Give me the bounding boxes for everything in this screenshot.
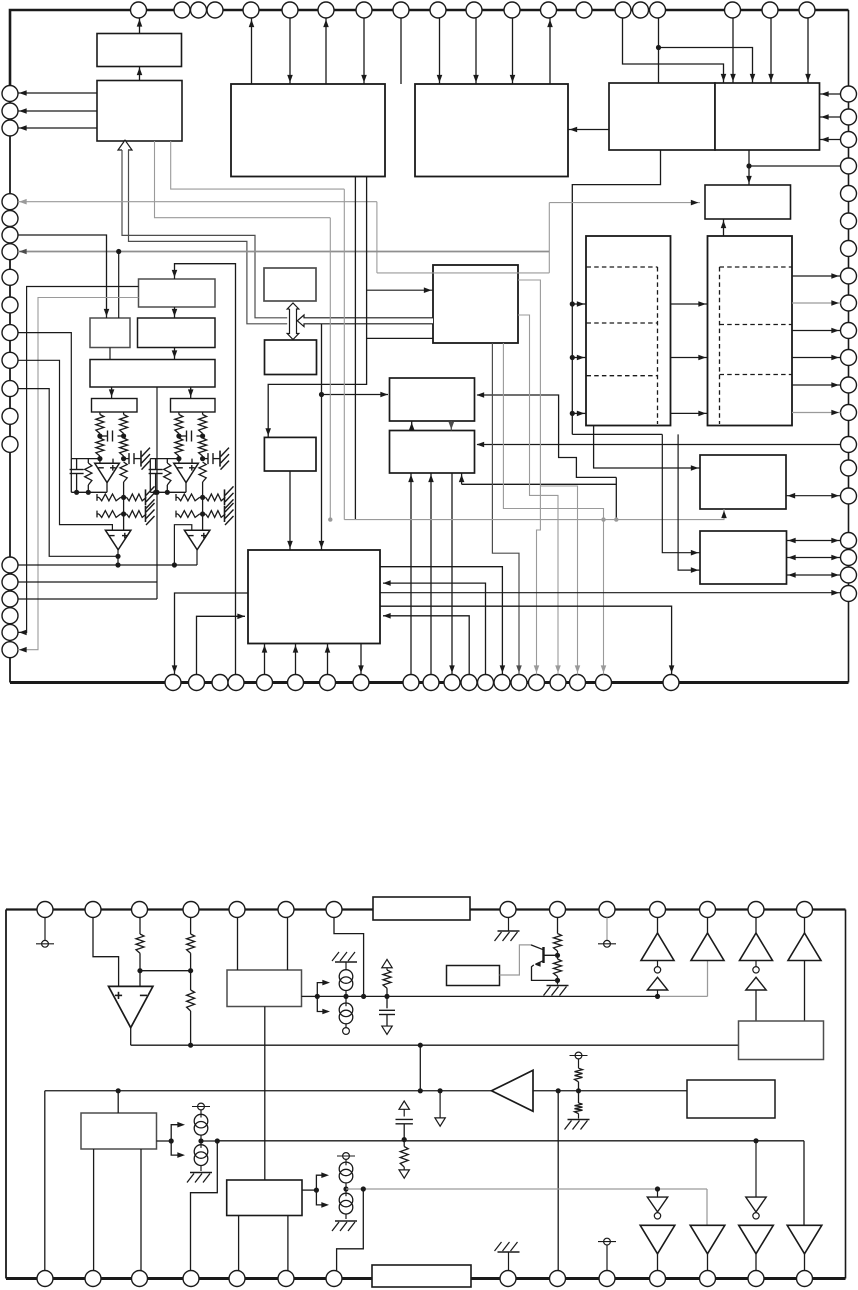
capacitor vca feedback Cf bbox=[155, 459, 157, 470]
terminal pin10 top bbox=[606, 918, 608, 941]
buffer B1 bbox=[640, 1225, 675, 1254]
staircase rail to bottom pin4 bbox=[191, 1141, 218, 1271]
wire U2 out to left pin 3 bbox=[18, 127, 97, 129]
wire comparator minus bbox=[139, 971, 141, 987]
block U10 interface lower bbox=[265, 340, 317, 375]
wire U17 to U18 row3 bbox=[671, 412, 708, 414]
wire U10b to U23 top bbox=[289, 471, 291, 550]
pin left 7 bbox=[2, 244, 18, 260]
wire U20 to right pin 19 bidir bbox=[787, 574, 841, 576]
wire x616 vertical bbox=[615, 477, 617, 519]
wire pin left 16 opamp out rail bbox=[18, 564, 197, 566]
pin IC2 bottom 10 bbox=[599, 1271, 615, 1287]
pin top 8 bbox=[356, 2, 372, 18]
wire U8 port1 to bottom pin 15 bbox=[492, 343, 519, 675]
wire vca left loop bbox=[149, 459, 151, 493]
pin IC2 top 5 bbox=[229, 902, 245, 918]
block U11 processor row1 bbox=[139, 279, 216, 307]
wire U5 bottom to column x572 bbox=[572, 150, 660, 434]
buffer A2 bbox=[707, 918, 709, 934]
long wire to right pin 20 bbox=[380, 592, 841, 594]
wire bottom pin 2 into U23 bbox=[197, 616, 246, 674]
wire top pin 12 to U4 bbox=[512, 18, 514, 84]
wire pin left 18 bbox=[18, 598, 157, 600]
wire V bottom to X top bbox=[264, 1007, 266, 1181]
pin right 10 bbox=[841, 323, 857, 339]
IC2 package outline bbox=[5, 910, 7, 1279]
wire X fork to current sources bbox=[302, 1189, 316, 1191]
resistor column x578 lower bbox=[578, 1091, 580, 1103]
ground above bottom pin8 bbox=[508, 1252, 510, 1271]
block U15 DAC L bbox=[92, 399, 138, 413]
pin right 7 bbox=[841, 241, 857, 257]
wire bus down to U12 top bbox=[118, 252, 120, 319]
resistor column x578 upper bbox=[578, 1059, 580, 1068]
pin IC2 top 3 bbox=[132, 902, 148, 918]
wire rail link vertical bbox=[419, 1045, 421, 1091]
gray bus vertical x377 bbox=[376, 202, 378, 273]
wire U20 to right pin 17 bidir bbox=[787, 540, 841, 542]
wire node A to opamp minus bbox=[178, 459, 180, 464]
capacitor vca C1 bbox=[179, 435, 187, 437]
wire W top to rail bbox=[117, 1091, 119, 1113]
wire opampL2 output bbox=[117, 549, 119, 565]
pin left 4 bbox=[2, 194, 18, 210]
wire branch to U21 input bbox=[322, 394, 389, 396]
wire U2 to U1 bbox=[139, 67, 141, 81]
pin IC2 top 13 bbox=[748, 902, 764, 918]
wire pin6 to V bbox=[287, 918, 289, 971]
pin right 18 bbox=[841, 550, 857, 566]
junction bus dot bbox=[116, 249, 121, 254]
wire pin left 12 to opampL output node bbox=[18, 389, 118, 557]
wire U18 top to U7 bottom bbox=[723, 219, 725, 236]
buffer A1 bbox=[657, 918, 659, 934]
resistor vca R3 bbox=[199, 462, 206, 482]
pin right 19 bbox=[841, 567, 857, 583]
wire U18 out to right pin 13 bbox=[792, 412, 841, 414]
pin top 4 bbox=[207, 2, 223, 18]
rail y1090 right bbox=[533, 1090, 687, 1092]
gray bus y520 into U19 bottom bbox=[344, 509, 724, 520]
capacitor to ground node B bbox=[203, 458, 208, 460]
wire top pin 17 to U5 and branch bbox=[658, 18, 660, 83]
pin right 15 bbox=[841, 460, 857, 476]
wire U8 port2 to bottom pin 19 via y508 bbox=[503, 343, 603, 675]
pin IC2 bottom 6 bbox=[278, 1271, 294, 1287]
wire bottom pin 12 into U23 bbox=[383, 616, 469, 675]
buffer A3 bbox=[755, 918, 757, 934]
wire U8 right port2 to bottom pin 17 bbox=[518, 315, 558, 675]
pin right 5 bbox=[841, 186, 857, 202]
wire bottom pin 5 into U23 bbox=[264, 644, 266, 675]
op-amp vca A2 bbox=[184, 530, 210, 550]
block U12 small left bbox=[90, 318, 130, 348]
wire opamp output to rail bbox=[185, 483, 187, 493]
wire U17 to U18 row2 bbox=[671, 357, 708, 359]
wire pin5 to V bbox=[237, 918, 239, 971]
wire right staircase into U21 bbox=[477, 395, 616, 477]
pin right 12 bbox=[841, 377, 857, 393]
pin right 13 bbox=[841, 405, 857, 421]
pin IC2 bottom 13 bbox=[748, 1271, 764, 1287]
wire vca leg L upper bbox=[178, 412, 180, 415]
pin IC2 top 7 bbox=[326, 902, 342, 918]
pin left 8 bbox=[2, 269, 18, 285]
resistor row1 left bbox=[175, 494, 177, 501]
wire X to bottom pin5 bbox=[238, 1216, 240, 1271]
ground transistor bbox=[557, 980, 559, 984]
block U16 DAC R bbox=[171, 399, 216, 413]
pin IC2 bottom 4 bbox=[183, 1271, 199, 1287]
wire U22 to bottom pin 11 bbox=[451, 473, 453, 675]
pin right 14 bbox=[841, 437, 857, 453]
gray bus vertical x549 bbox=[548, 203, 550, 273]
pin bottom 4 bbox=[228, 675, 244, 691]
pin IC2 top 4 bbox=[183, 902, 199, 918]
current source W upper bbox=[194, 1114, 208, 1128]
resistor vca R1L bbox=[175, 415, 183, 434]
pin IC2 bottom 5 bbox=[229, 1271, 245, 1287]
pin top 6 bbox=[282, 2, 298, 18]
wire top pin 6 to U3 bbox=[289, 18, 291, 84]
wire U18 out to right pin 11 bbox=[792, 357, 841, 359]
op-amp vca A1 bbox=[174, 463, 199, 482]
resistor vca R2L bbox=[175, 438, 183, 456]
pin left 5 bbox=[2, 211, 18, 227]
wire U23 out y606 to pin 671 bbox=[380, 606, 672, 674]
wire comparator output rail bbox=[130, 1028, 132, 1046]
wire W to bottom pin3 bbox=[140, 1149, 142, 1271]
pin bottom 19 bbox=[596, 675, 612, 691]
pin top 9 bbox=[393, 2, 409, 18]
wire pin7 elbow to rail bbox=[334, 918, 364, 997]
pin IC2 top 2 bbox=[85, 902, 101, 918]
wire U18 out to right pin 12 bbox=[792, 384, 841, 386]
wire rail to bottom pin1 bbox=[44, 1091, 46, 1271]
block U17 memory left (dashed interior) bbox=[586, 236, 671, 426]
pin bottom 10 bbox=[423, 675, 439, 691]
pin left 3 bbox=[2, 120, 18, 136]
ground row2 bbox=[145, 506, 147, 522]
buffer B3 bbox=[739, 1225, 774, 1254]
terminal pin1 top bbox=[44, 918, 46, 941]
wire W to bottom pin2 bbox=[93, 1149, 95, 1271]
resistor vca feedback Rf bbox=[87, 459, 89, 463]
block U21 servo T1 bbox=[390, 378, 475, 421]
inverter A1 bbox=[647, 977, 667, 990]
IC1 package outline bbox=[10, 10, 849, 100]
ground pin8 top bbox=[508, 918, 510, 931]
block U13 processor row2 bbox=[138, 318, 216, 348]
long bus y251 to pin left 7 bbox=[18, 251, 549, 253]
gray rail y1189 bbox=[346, 1188, 707, 1190]
wire U19 to right pin 16 bidir bbox=[786, 495, 841, 497]
pin bottom 9 bbox=[403, 675, 419, 691]
block U3 large left-center bbox=[231, 84, 385, 177]
pin bottom 20 bbox=[663, 675, 679, 691]
resistor row2 left bbox=[96, 511, 98, 518]
gray vertical x330 from bus B bbox=[329, 218, 331, 520]
wire pin left 11 to opampL minus bbox=[18, 360, 112, 530]
wire opampR2 output bbox=[196, 549, 198, 566]
ground row2 bbox=[224, 506, 226, 522]
pin IC2 top 8 bbox=[500, 902, 516, 918]
wire U3 to top pin 7 bbox=[325, 18, 327, 84]
wire branch pin17 to U6 bbox=[659, 48, 753, 84]
wire column x572 bottom bbox=[572, 433, 662, 435]
pin top 20 bbox=[799, 2, 815, 18]
ground column x578 bbox=[568, 1119, 590, 1121]
pin IC2 bottom 1 bbox=[37, 1271, 53, 1287]
block VCO X bbox=[227, 1180, 302, 1216]
wire U12 to U14 bbox=[109, 348, 111, 360]
ground row1 bbox=[224, 489, 226, 505]
wire U18 out to right pin 8 bbox=[792, 275, 841, 277]
pin bottom 6 bbox=[288, 675, 304, 691]
wire right pin 2 to U6 bbox=[820, 116, 841, 118]
pin left 6 bbox=[2, 227, 18, 243]
ground above current source V bbox=[335, 961, 357, 963]
terminal above bottom pin10 bbox=[606, 1245, 608, 1270]
gray wire Z to transistor bbox=[500, 945, 532, 975]
pin left 12 bbox=[2, 381, 18, 397]
current source V lower bbox=[345, 996, 347, 1006]
wire vca leg R upper bbox=[123, 412, 125, 415]
gray vertical from bus A bbox=[343, 189, 345, 519]
wire U3 port1 down bbox=[354, 177, 356, 520]
wire U21 down to U22 bbox=[450, 421, 452, 431]
capacitor column x387 bbox=[386, 996, 388, 1008]
wire node B to opamp plus bbox=[112, 459, 114, 464]
wire top pin 11 to U4 bbox=[475, 18, 477, 84]
wire U3 to top pin 5 bbox=[251, 18, 253, 84]
pin right 11 bbox=[841, 350, 857, 366]
wire W fork to current sources bbox=[157, 1140, 172, 1142]
rail y1090 left bbox=[45, 1090, 491, 1092]
pin right 2 bbox=[841, 109, 857, 125]
resistor column x404 bbox=[403, 1140, 405, 1147]
wire U17 to U18 row1 bbox=[671, 303, 708, 305]
rail y996 gray to A2 bbox=[658, 995, 708, 997]
pin top 7 bbox=[318, 2, 334, 18]
hollow arrow head into U2 bottom bbox=[118, 140, 132, 150]
resistor vca R1R bbox=[199, 415, 207, 434]
capacitor vca feedback Cf bbox=[76, 459, 78, 470]
block Y bbox=[739, 1021, 824, 1060]
wire stub top pin 9 bbox=[400, 18, 402, 84]
resistor row1 right bbox=[206, 494, 226, 501]
pin top 1 bbox=[131, 2, 147, 18]
pin bottom 17 bbox=[550, 675, 566, 691]
block U2 top-left lower bbox=[97, 81, 182, 142]
block U19 mode bbox=[700, 455, 786, 509]
wire top pin 20 to U6 bbox=[807, 18, 809, 83]
pin bottom 15 bbox=[511, 675, 527, 691]
pin IC2 bottom 3 bbox=[132, 1271, 148, 1287]
hollow bus inner line U2 to shaft bbox=[129, 150, 288, 324]
crystal box top border bbox=[373, 897, 470, 920]
pin top 17 bbox=[650, 2, 666, 18]
inverter above B3 bbox=[755, 1141, 757, 1197]
pin bottom 1 bbox=[165, 675, 181, 691]
wire U3 port2 to U8 and U10b bbox=[268, 177, 366, 438]
pin top 10 bbox=[430, 2, 446, 18]
wire U18 out to right pin 10 bbox=[792, 330, 841, 332]
pin left 1 bbox=[2, 86, 18, 102]
wire U23 to bottom pin 8 bbox=[360, 644, 362, 675]
current source V upper bbox=[339, 970, 353, 984]
buffer A4 bbox=[804, 918, 806, 934]
wire branch down to U23 top bbox=[321, 324, 323, 550]
pin top 15 bbox=[615, 2, 631, 18]
supply hanger down arrow bbox=[439, 1091, 441, 1118]
wire U2 out to left pin 2 bbox=[18, 110, 97, 112]
pin right 4 bbox=[841, 158, 857, 174]
current source X lower bbox=[345, 1189, 347, 1196]
wire vertical x157 U14 to pins bbox=[156, 387, 158, 599]
staircase to bottom pin7 bbox=[337, 1189, 364, 1271]
gray bus y273 bbox=[377, 272, 549, 274]
resistor pin4 column lower bbox=[190, 971, 192, 990]
pin top 3 bbox=[191, 2, 207, 18]
hollow bus outer line U2 to shaft bbox=[122, 150, 287, 318]
wire pin left 17 bbox=[18, 581, 157, 583]
wire vca leg L upper bbox=[99, 412, 101, 415]
pin left 19 bbox=[2, 624, 18, 640]
block U18 memory right (dashed interior) bbox=[708, 236, 793, 426]
wire top pin 15 to U6 bbox=[623, 18, 724, 83]
block divider Z bbox=[447, 966, 500, 986]
block U5 top-right left half bbox=[609, 83, 715, 150]
pin IC2 bottom 2 bbox=[85, 1271, 101, 1287]
pin bottom 11 bbox=[444, 675, 460, 691]
gray wire to buffer B2 bbox=[706, 1189, 708, 1225]
wire row2 to opamp2 bbox=[202, 514, 204, 530]
rail y1140 bbox=[201, 1140, 217, 1142]
wire right pin 3 to U6 bbox=[820, 139, 841, 141]
pin IC2 top 6 bbox=[278, 902, 294, 918]
block U7 register bbox=[705, 185, 791, 219]
resistor vca R3 bbox=[120, 462, 127, 482]
wire opampR minus riser bbox=[174, 525, 191, 565]
wire to U20 input 2 bbox=[678, 434, 700, 570]
ground row1 bbox=[145, 489, 147, 505]
pin left 18 bbox=[2, 608, 18, 624]
wire top pin 18 to U6 bbox=[732, 18, 734, 83]
op-amp vca A1 bbox=[95, 463, 120, 482]
pin left 14 bbox=[2, 436, 18, 452]
resistor transistor lower bbox=[557, 955, 559, 959]
transistor Q1 bbox=[542, 947, 544, 963]
capacitor column x404 bbox=[396, 1118, 413, 1120]
wire top pin 8 to U3 bbox=[363, 18, 365, 84]
wire U20 to right pin 18 bidir bbox=[787, 557, 841, 559]
resistor row1 right bbox=[127, 494, 147, 501]
block U22 servo T2 bbox=[390, 431, 475, 474]
block PLL W bbox=[81, 1113, 157, 1149]
terminal above current source W bbox=[198, 1103, 205, 1110]
wire bottom pin 4 up to U11 bbox=[175, 264, 236, 675]
wire vca leg R upper bbox=[202, 412, 204, 415]
wire rail to bottom pin9 bbox=[557, 1091, 559, 1271]
pin IC2 bottom 14 bbox=[797, 1271, 813, 1287]
pin right 16 bbox=[841, 488, 857, 504]
wire bottom pin 9 to U22 bbox=[410, 473, 412, 675]
wire top pin 19 to U6 bbox=[770, 18, 772, 83]
pin IC2 bottom 8 bbox=[500, 1271, 516, 1287]
wire pin left 6 to U12 bbox=[18, 235, 107, 318]
hollow bidir arrow U9-U10b bbox=[287, 303, 299, 340]
block VCO V bbox=[227, 970, 302, 1007]
resistor vca R1L bbox=[96, 415, 104, 434]
resistor vca R1R bbox=[120, 415, 128, 434]
resistor row2 right bbox=[127, 511, 147, 518]
wire U4 to top pin 13 bbox=[549, 18, 551, 84]
resistor pin3 column bbox=[139, 918, 141, 935]
terminal column x578 bbox=[575, 1052, 582, 1059]
resistor pin4 column upper bbox=[190, 918, 192, 935]
wire row2 to opamp2 bbox=[123, 514, 125, 530]
pin IC2 bottom 7 bbox=[326, 1271, 342, 1287]
wire U3 port2 branch into U8 bbox=[367, 289, 433, 291]
pin bottom 2 bbox=[189, 675, 205, 691]
resistor row1 left bbox=[96, 494, 98, 501]
inverter A3 bbox=[746, 977, 766, 990]
resistor vca feedback Rf bbox=[166, 459, 168, 463]
gray bus to pin left 4 bbox=[18, 201, 377, 203]
pin top 12 bbox=[504, 2, 520, 18]
ground below current source W bbox=[200, 1166, 202, 1172]
block U9 interface small bbox=[264, 268, 316, 301]
gray bus from U2 port B bbox=[155, 141, 331, 218]
wire bottom pin 7 into U23 bbox=[327, 644, 329, 675]
wire U11 to U13 bbox=[174, 307, 176, 318]
wire U14 to U15 bbox=[111, 387, 113, 399]
pin bottom 5 bbox=[257, 675, 273, 691]
pin left 15 bbox=[2, 557, 18, 573]
block U10b interface third bbox=[264, 437, 316, 471]
pin top 16 bbox=[633, 2, 649, 18]
wire U23 left to bottom pin 1 bbox=[175, 593, 249, 675]
pin IC2 bottom 9 bbox=[550, 1271, 566, 1287]
pin IC2 top 12 bbox=[700, 902, 716, 918]
pin right 8 bbox=[841, 268, 857, 284]
pin top 11 bbox=[466, 2, 482, 18]
pin IC2 bottom 12 bbox=[700, 1271, 716, 1287]
resistor row2 right bbox=[206, 511, 226, 518]
resistor vca R2R bbox=[199, 438, 207, 456]
block U20 output select bbox=[700, 531, 787, 584]
gray bus from U2 port A bbox=[171, 141, 345, 189]
pin right 20 bbox=[841, 586, 857, 602]
pin left 11 bbox=[2, 352, 18, 368]
pin bottom 16 bbox=[529, 675, 545, 691]
pin top 2 bbox=[174, 2, 190, 18]
wire U14 to U16 bbox=[190, 387, 192, 399]
capacitor vca C1 bbox=[100, 435, 108, 437]
amplifier AMP1 bbox=[492, 1070, 534, 1111]
capacitor to ground node B bbox=[124, 458, 129, 460]
gray bus into U7 bbox=[549, 202, 700, 204]
pin bottom 14 bbox=[494, 675, 510, 691]
pin bottom 18 bbox=[570, 675, 586, 691]
pin top 19 bbox=[762, 2, 778, 18]
wire U23 out y567 to bottom pin 14 bbox=[380, 567, 502, 675]
wire U13 to U14 bbox=[174, 348, 176, 360]
resistor vca R2L bbox=[96, 438, 104, 456]
wire A4 to Y bbox=[804, 961, 806, 1022]
